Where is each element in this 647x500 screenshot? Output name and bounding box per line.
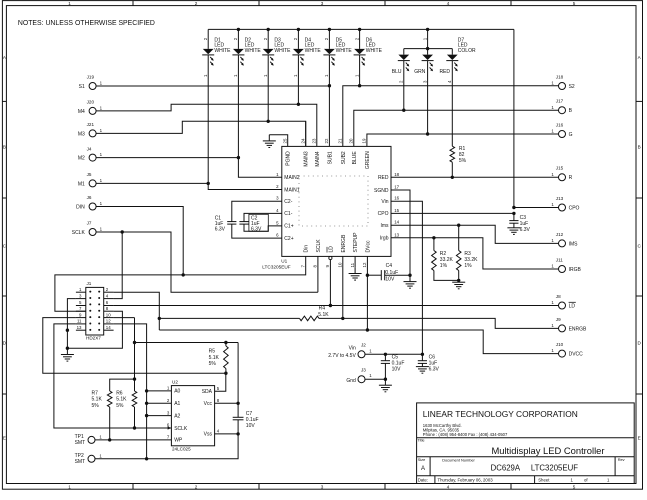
svg-text:10V: 10V	[246, 423, 256, 429]
svg-text:G: G	[569, 132, 573, 138]
svg-text:M4: M4	[78, 109, 85, 115]
op-amp U1 LTC3205EUF main IC	[262, 138, 399, 269]
svg-text:Vcc: Vcc	[204, 401, 213, 407]
svg-text:R6: R6	[116, 390, 123, 396]
svg-text:CPO: CPO	[378, 211, 389, 217]
svg-text:Thursday, February 06, 2003: Thursday, February 06, 2003	[438, 478, 494, 483]
svg-text:DC629A: DC629A	[491, 464, 521, 473]
svg-text:J19: J19	[87, 75, 95, 80]
svg-text:J10: J10	[556, 342, 564, 347]
svg-text:1: 1	[68, 485, 71, 490]
svg-text:Multidisplay LED Controller: Multidisplay LED Controller	[491, 445, 604, 456]
svg-text:SMT: SMT	[75, 440, 86, 446]
svg-text:A: A	[421, 466, 425, 472]
svg-text:ENRGB: ENRGB	[569, 326, 587, 332]
svg-text:J20: J20	[87, 100, 95, 105]
svg-text:5: 5	[573, 1, 576, 6]
svg-text:Vss: Vss	[204, 432, 213, 438]
wire - Irgb pin 13 to J11 IRGB	[391, 236, 559, 269]
U1 PGND pin 25 to ground	[263, 135, 288, 148]
connector J18 S2	[551, 74, 575, 90]
svg-text:14: 14	[394, 220, 399, 225]
svg-text:U2: U2	[172, 379, 178, 384]
wire - U2 A1	[147, 402, 172, 404]
svg-text:J11: J11	[556, 257, 564, 262]
connector J6 DIN	[76, 195, 102, 210]
svg-text:LTC3205EUF: LTC3205EUF	[531, 464, 578, 473]
svg-text:S1: S1	[79, 84, 85, 90]
ground under C5	[379, 379, 392, 392]
connector J21 M3	[78, 122, 103, 137]
svg-text:C1-: C1-	[284, 211, 292, 217]
svg-text:13: 13	[77, 325, 82, 330]
resistor R6 5.1K 5% (SCLK pull-up)	[116, 390, 137, 428]
ground at R2/R3	[452, 280, 465, 288]
svg-text:WHITE: WHITE	[366, 48, 383, 54]
svg-text:24: 24	[300, 138, 305, 143]
svg-text:S2: S2	[569, 84, 575, 90]
svg-text:B: B	[3, 145, 6, 150]
connector J7 SCLK	[72, 221, 103, 236]
svg-text:6.3V: 6.3V	[429, 367, 440, 373]
svg-text:MAIN3: MAIN3	[304, 151, 310, 167]
svg-text:Din: Din	[304, 245, 310, 253]
svg-text:GREEN: GREEN	[365, 151, 371, 169]
svg-text:5: 5	[573, 485, 576, 490]
LED D2 WHITE	[232, 29, 261, 157]
svg-text:MAIN1: MAIN1	[284, 187, 300, 193]
svg-text:A0: A0	[174, 389, 180, 395]
U1 ENRGB pin 10 lead	[342, 256, 344, 318]
wire - S1 to SUB1/D5 cathode	[96, 85, 329, 87]
svg-text:MAIN4: MAIN4	[315, 151, 321, 167]
connector J3 Gnd	[346, 367, 372, 384]
LED D4 WHITE	[292, 29, 321, 104]
svg-text:J7: J7	[87, 221, 92, 226]
svg-text:J2: J2	[361, 342, 366, 347]
svg-text:LINEAR TECHNOLOGY CORPORATION: LINEAR TECHNOLOGY CORPORATION	[423, 409, 578, 419]
wire - J1 pin3 to pin13 and ground	[66, 299, 76, 350]
svg-text:J5: J5	[87, 172, 92, 177]
svg-text:U1: U1	[281, 259, 287, 264]
svg-text:ENRGB: ENRGB	[341, 234, 347, 252]
svg-text:BLUE: BLUE	[352, 151, 358, 165]
svg-text:15: 15	[394, 208, 399, 213]
capacitor C3 1uF 6.3V	[507, 213, 530, 234]
svg-text:Size: Size	[418, 457, 426, 462]
svg-text:3: 3	[321, 485, 324, 490]
wire - TP1 to U2 WP	[95, 439, 171, 441]
connector J9 ENRGB	[551, 317, 587, 333]
svg-text:5%: 5%	[459, 158, 467, 164]
capacitor C7 0.1uF 10V	[233, 411, 259, 429]
test point TP1 SMT	[75, 434, 103, 446]
LED D7 COLOR (tri-color)	[392, 29, 476, 146]
wire - J3 to C5 ground node	[365, 378, 386, 380]
svg-text:SUB2: SUB2	[341, 151, 347, 164]
svg-text:STEPUP: STEPUP	[353, 232, 359, 253]
wire - M1 to D1 cathode / U1 MAIN1	[96, 182, 282, 190]
connector J1 HD2X7 header	[76, 281, 114, 340]
capacitor C4 0.1uF 10V	[367, 263, 410, 283]
capacitor C2 1uF 6.3V (flying cap)	[239, 213, 281, 232]
svg-text:6.3V: 6.3V	[520, 227, 531, 233]
svg-text:Title: Title	[417, 438, 424, 443]
junction dots on top rail	[237, 28, 430, 31]
svg-text:SDA: SDA	[202, 389, 213, 395]
svg-text:5.1K: 5.1K	[209, 355, 220, 361]
svg-text:J8: J8	[556, 294, 561, 299]
connector J11 IRGB	[551, 257, 581, 273]
svg-text:M2: M2	[78, 156, 85, 162]
svg-text:MAIN2: MAIN2	[284, 175, 300, 181]
svg-text:RED: RED	[439, 69, 450, 75]
svg-text:18: 18	[394, 172, 399, 177]
wire - ENRGB to J9	[343, 318, 559, 328]
svg-text:WP: WP	[174, 438, 183, 444]
svg-text:14: 14	[106, 325, 111, 330]
svg-text:4: 4	[447, 1, 450, 6]
wire - U2 A2	[147, 415, 172, 417]
svg-text:R5: R5	[209, 349, 216, 355]
svg-text:B: B	[638, 145, 641, 150]
resistor R2 33.2K 1%	[432, 238, 459, 281]
capacitor C5 0.1uF 10V	[381, 354, 405, 381]
svg-text:1%: 1%	[440, 263, 448, 269]
connector J4 M2	[78, 146, 103, 161]
wire - LD net: J1 pin6 to U1 LD to J8	[114, 304, 559, 307]
U1 GREEN pin 19 to G line / J16	[367, 132, 559, 146]
wire - J1 pin10 to VCC pull-up rail	[114, 318, 137, 391]
svg-text:6.3V: 6.3V	[251, 226, 262, 232]
svg-text:J18: J18	[556, 74, 564, 79]
svg-text:1%: 1%	[464, 263, 472, 269]
wire - DIN bus: J1 pin7 to U1 Din	[55, 256, 306, 311]
wire - LED anode top rail (CPO net)	[208, 28, 514, 30]
resistor R3 33.2K 1%	[456, 225, 478, 282]
wire - U2 Vcc pin 8	[215, 402, 239, 404]
connector J8 LD	[551, 294, 575, 310]
svg-text:A2: A2	[174, 413, 180, 419]
svg-text:16: 16	[394, 196, 399, 201]
wire - J1 pin12 to U2 address pins / gnd	[114, 324, 149, 461]
wire - C7 to U2 Vss to gnd bus	[95, 420, 240, 459]
connector J17 B	[551, 99, 572, 115]
svg-text:C1+: C1+	[284, 224, 293, 230]
svg-text:LD: LD	[328, 246, 334, 253]
svg-text:5%: 5%	[92, 403, 100, 409]
svg-text:Sheet: Sheet	[538, 478, 550, 483]
svg-text:Phone : (408) 954-8400 Fax :: Phone : (408) 954-8400 Fax : (408) 434-0…	[423, 432, 508, 437]
svg-text:12: 12	[362, 262, 367, 267]
svg-text:0.1uF: 0.1uF	[385, 270, 398, 276]
wire - SDA from U2 up to R5	[215, 373, 226, 391]
svg-text:IRGB: IRGB	[569, 267, 582, 273]
svg-text:5.1K: 5.1K	[116, 397, 127, 403]
test point TP2 SMT	[75, 453, 103, 465]
wire - J1 pin11 to U2 SCLK line	[54, 324, 171, 430]
svg-text:R7: R7	[92, 390, 99, 396]
svg-text:LD: LD	[569, 303, 576, 309]
node SUB1: D5 cathode junction, down to U1 pin22	[328, 84, 331, 146]
svg-text:SCLK: SCLK	[72, 230, 86, 236]
svg-text:10V: 10V	[385, 277, 395, 283]
svg-text:M3: M3	[78, 131, 85, 137]
svg-text:1: 1	[68, 1, 71, 6]
svg-text:COLOR: COLOR	[458, 48, 476, 54]
svg-text:J16: J16	[556, 122, 564, 127]
svg-text:Gnd: Gnd	[346, 378, 356, 384]
svg-text:Ims: Ims	[380, 223, 389, 229]
wire - M4 to U1 MAIN4	[96, 103, 317, 147]
svg-text:GRN: GRN	[414, 69, 426, 75]
svg-text:10: 10	[338, 262, 343, 267]
title block	[417, 403, 635, 484]
U1 STEPUP pin 11 to ground	[349, 256, 362, 280]
wire - J1 pin2 to DVCC net vertical	[114, 292, 161, 330]
LED D5 WHITE	[323, 29, 352, 85]
wire - J13 CPO line	[512, 206, 558, 209]
wire - J1 pin8 to ground node	[67, 311, 122, 348]
svg-text:10V: 10V	[392, 367, 402, 373]
svg-text:DVCC: DVCC	[569, 352, 584, 358]
wire - SCLK from J7 to U1 SCLK	[96, 230, 318, 292]
svg-text:DVcc: DVcc	[365, 240, 371, 252]
svg-text:25: 25	[282, 138, 287, 143]
svg-text:J15: J15	[556, 166, 564, 171]
svg-text:21: 21	[338, 138, 343, 143]
svg-text:HD2X7: HD2X7	[86, 335, 101, 340]
wire - U2 A0	[147, 390, 172, 392]
svg-text:SCLK: SCLK	[316, 239, 322, 253]
resistor R5 5.1K 5% (SDA pull-up)	[209, 341, 229, 375]
svg-text:J4: J4	[87, 146, 92, 151]
svg-text:2: 2	[195, 1, 198, 6]
svg-text:J17: J17	[556, 99, 564, 104]
connector J15 R	[551, 166, 572, 182]
wire - RED pin 18 to J15 R	[391, 176, 559, 179]
svg-text:13: 13	[394, 232, 399, 237]
capacitor C1 1uF 6.3V	[215, 201, 282, 238]
svg-text:SCLK: SCLK	[174, 426, 188, 432]
svg-text:Date:: Date:	[418, 478, 428, 483]
connector J12 IMS	[551, 232, 578, 248]
LED D3 WHITE	[262, 29, 291, 121]
connector J19 S1	[79, 75, 103, 90]
svg-text:C4: C4	[386, 263, 393, 269]
svg-text:5.1K: 5.1K	[92, 397, 103, 403]
wire - Ims pin 14 to J12 IMS	[391, 224, 559, 244]
svg-text:WHITE: WHITE	[245, 48, 262, 54]
svg-text:J9: J9	[556, 317, 561, 322]
svg-text:22: 22	[324, 138, 329, 143]
wire - J1 pin9 to SDA line	[43, 318, 226, 374]
svg-text:3: 3	[321, 1, 324, 6]
resistor R4 5.1K (ENRGB pull-up)	[159, 306, 344, 321]
svg-text:Irgb: Irgb	[380, 236, 389, 242]
notes text	[18, 20, 155, 27]
svg-text:DIN: DIN	[76, 204, 85, 210]
svg-text:SMT: SMT	[75, 459, 86, 465]
svg-text:J13: J13	[556, 196, 564, 201]
svg-text:J1: J1	[87, 281, 92, 286]
wire - U2 Vss pin 4	[215, 433, 239, 435]
svg-text:WHITE: WHITE	[274, 48, 291, 54]
svg-text:LTC3205EUF: LTC3205EUF	[262, 264, 290, 269]
svg-text:J21: J21	[87, 122, 95, 127]
svg-text:Rev: Rev	[618, 457, 625, 462]
svg-text:WHITE: WHITE	[336, 48, 353, 54]
svg-text:11: 11	[77, 319, 82, 324]
svg-text:23: 23	[312, 138, 317, 143]
svg-text:24LC025: 24LC025	[172, 447, 191, 452]
svg-text:WHITE: WHITE	[214, 48, 231, 54]
svg-text:J3: J3	[361, 367, 366, 372]
svg-text:12: 12	[106, 319, 111, 324]
svg-text:CPO: CPO	[569, 205, 580, 211]
U1 BLUE pin 20 to B line / J17	[354, 109, 559, 147]
resistor R1 82 5%	[450, 146, 467, 177]
wire - CPO pin 15 to C3 node	[391, 212, 516, 215]
svg-text:A1: A1	[174, 401, 180, 407]
svg-text:5%: 5%	[209, 361, 217, 367]
svg-text:4: 4	[447, 485, 450, 490]
svg-text:5%: 5%	[116, 403, 124, 409]
U1 LD pin 9 with bubble	[329, 256, 332, 305]
svg-text:PGND: PGND	[286, 151, 292, 166]
connector J2 Vin input	[328, 342, 372, 359]
U1 DVcc pin 12 lead	[366, 256, 369, 330]
capacitor C6 1uF 6.3V	[416, 354, 440, 373]
connector J16 G	[551, 122, 572, 137]
wire - M2 to D2 cathode / U1 MAIN2	[96, 156, 282, 177]
wire - SCLK branch to J1 pin4	[114, 232, 123, 299]
svg-text:19: 19	[362, 138, 367, 143]
connector J10 DVCC	[551, 342, 583, 358]
wire - J2 to Vin net	[365, 353, 423, 356]
svg-text:5.1K: 5.1K	[318, 312, 329, 318]
svg-text:20: 20	[349, 138, 354, 143]
svg-text:RED: RED	[378, 175, 389, 181]
svg-text:R: R	[569, 175, 573, 181]
svg-text:IMS: IMS	[569, 241, 579, 247]
ground at J1	[61, 348, 74, 361]
wire - M3 to U1 MAIN3	[96, 120, 306, 147]
connector J13 CPO	[551, 196, 579, 212]
U1 SGND pin 17 to ground	[391, 190, 417, 288]
svg-text:J6: J6	[87, 195, 92, 200]
connector J5 M1	[78, 172, 103, 187]
svg-text:10: 10	[106, 312, 111, 317]
svg-text:NOTES: UNLESS OTHERWISE SPECIF: NOTES: UNLESS OTHERWISE SPECIFIED	[18, 20, 155, 27]
svg-text:Vin: Vin	[349, 346, 356, 352]
wire - VCC rail to U2 Vcc and C7	[135, 343, 240, 418]
svg-text:E: E	[638, 436, 641, 441]
svg-text:6.3V: 6.3V	[215, 227, 226, 233]
svg-text:Vin: Vin	[381, 199, 388, 205]
wire - Vin pin 16 down to input node	[391, 201, 424, 356]
svg-text:WHITE: WHITE	[305, 48, 322, 54]
wire - DVCC bus to J10	[159, 328, 558, 353]
IC U2 24LC025 EEPROM	[167, 379, 220, 451]
svg-text:2.7V to 4.5V: 2.7V to 4.5V	[328, 353, 356, 359]
wire - SUB2 segment to S2 (J18)	[343, 84, 559, 146]
svg-text:2: 2	[195, 485, 198, 490]
svg-text:SUB1: SUB1	[327, 151, 333, 164]
wire - DIN from J6 down to DIN bus	[96, 207, 185, 277]
svg-text:Document Number: Document Number	[442, 457, 475, 462]
LED D6 WHITE	[354, 29, 383, 85]
svg-text:M1: M1	[78, 181, 85, 187]
svg-text:J12: J12	[556, 232, 564, 237]
svg-text:E: E	[3, 436, 6, 441]
resistor R7 5.1K 5% (WP pull-up)	[92, 379, 135, 441]
wire - rail down to CPO/J13/C3	[513, 29, 515, 207]
svg-text:C2+: C2+	[284, 236, 293, 242]
svg-text:R4: R4	[319, 306, 326, 312]
svg-text:SGND: SGND	[374, 188, 389, 194]
U1 MAIN3 pin 24 lead	[305, 121, 307, 146]
svg-text:BLU: BLU	[392, 69, 402, 75]
connector J20 M4	[78, 100, 103, 115]
LED D1 WHITE	[202, 29, 231, 183]
svg-text:C2-: C2-	[284, 199, 292, 205]
svg-text:11: 11	[350, 262, 355, 267]
svg-text:17: 17	[394, 185, 399, 190]
